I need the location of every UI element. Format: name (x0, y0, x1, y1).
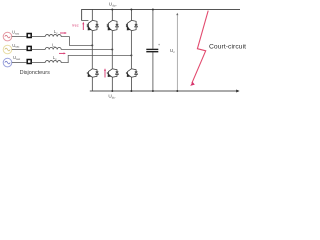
wire phase 2 breaker to inductor (32, 49, 46, 51)
svg-text:Disjoncteurs: Disjoncteurs (20, 70, 51, 76)
capacitor C plates (146, 48, 158, 50)
source Va (phase 1 AC source) (3, 32, 12, 41)
wire phase 1 source to breaker (12, 36, 27, 38)
node phase2/leg2 (111, 49, 113, 51)
wire leg 2 midpoint (111, 31, 113, 69)
wire leg 3 midpoint (130, 31, 132, 69)
inductor L2 (45, 48, 61, 50)
wire top DC+ rail with left corner down (82, 10, 240, 21)
source Vc (phase 3 AC source) (3, 58, 12, 67)
wire phase 2 source to breaker (12, 49, 27, 51)
breaker D3 (27, 60, 31, 64)
node phase1/leg1 (91, 44, 93, 46)
svg-text:Court-circuit: Court-circuit (209, 43, 246, 50)
svg-text:+: + (158, 43, 160, 47)
node T2 top on rail (111, 9, 113, 11)
capacitor C wires (152, 10, 154, 49)
short-circuit lightning bolt (192, 11, 208, 84)
wire phase 1 to leg 1 with step down (61, 37, 92, 46)
transistor T4 (IGBT + antiparallel diode) (87, 69, 98, 91)
wire phase 1 breaker to inductor (32, 36, 46, 38)
wire leg 1 midpoint (91, 31, 93, 69)
current arrow phase 1 (red) (60, 32, 65, 34)
current arrow Irec (red, up) at rectifier input (82, 24, 84, 30)
transistor T2 (IGBT + antiparallel diode) (107, 10, 118, 31)
wire phase 3 source to breaker (12, 62, 27, 64)
breaker D1 (27, 34, 31, 38)
breaker D2 (27, 46, 31, 50)
voltage arrow Uc (176, 15, 178, 91)
current arrow Iond (red, up) at inverter bottom (104, 70, 106, 77)
wire phase 3 breaker to inductor (32, 62, 46, 64)
arrowhead at right end of bottom rail (236, 90, 239, 93)
node phase3/leg3 (130, 54, 132, 56)
node capacitor bottom (152, 90, 154, 92)
node T5 bottom on rail (111, 90, 113, 92)
node Uc bottom (176, 90, 178, 92)
transistor T3 (IGBT + antiparallel diode) (126, 10, 137, 31)
node T6 bottom on rail (130, 90, 132, 92)
current arrow phase 3 (red) (59, 52, 64, 54)
source Vb (phase 2 AC source) (3, 45, 12, 54)
bolt arrowhead (190, 82, 195, 86)
wire cell1-top link from rail corner (82, 19, 89, 21)
wire bottom DC- rail (90, 90, 237, 92)
transistor T6 (IGBT + antiparallel diode) (126, 69, 137, 91)
svg-text:Irec: Irec (72, 23, 78, 27)
node T3 top on rail (130, 9, 132, 11)
wire phase 2 to leg 2 (61, 49, 112, 51)
inductor L3 (45, 61, 61, 63)
node capacitor top (152, 9, 154, 11)
transistor T5 (IGBT + antiparallel diode) (107, 69, 118, 91)
wire phase 3 to leg 3 with step up (61, 55, 131, 62)
transistor T1 (IGBT + antiparallel diode) (87, 10, 98, 31)
inductor L1 (45, 35, 61, 37)
